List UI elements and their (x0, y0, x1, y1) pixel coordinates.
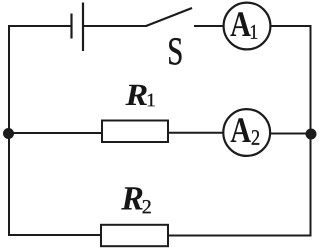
battery (cell): long positive plate (82, 3, 84, 52)
wire: top-left segment to battery (8, 25, 71, 27)
wire: A2 to right junction (270, 133, 311, 135)
label R2 (120, 180, 152, 218)
switch S: open blade (146, 8, 192, 26)
resistor R1 (102, 121, 168, 143)
svg-text:R: R (124, 78, 148, 112)
svg-text:S: S (167, 30, 183, 73)
svg-text:1: 1 (146, 90, 156, 111)
wire: R2 to bottom-right corner (168, 235, 312, 237)
ammeter A2 (223, 109, 270, 156)
wire: left junction to resistor R1 (9, 132, 102, 134)
wire: bottom-left segment to resistor R2 (8, 234, 101, 236)
ammeter A1 (224, 3, 271, 50)
svg-text:A: A (230, 5, 251, 45)
battery (cell): short negative plate (70, 14, 72, 39)
node: right junction dot (306, 129, 317, 140)
wire: right vertical (310, 26, 312, 236)
svg-text:2: 2 (251, 126, 260, 150)
svg-text:R: R (120, 180, 144, 217)
label R1 (124, 78, 155, 112)
svg-text:A: A (230, 111, 251, 151)
node: left junction dot (3, 128, 14, 139)
wire: switch to ammeter A1 (194, 25, 224, 27)
wire: R1 to ammeter A2 (168, 132, 224, 134)
wire: A1 to top-right corner (270, 25, 312, 27)
wire: battery to switch (84, 25, 147, 27)
wire: left vertical (8, 26, 10, 236)
svg-text:2: 2 (142, 196, 152, 218)
svg-text:1: 1 (249, 22, 258, 45)
resistor R2 (101, 225, 168, 246)
